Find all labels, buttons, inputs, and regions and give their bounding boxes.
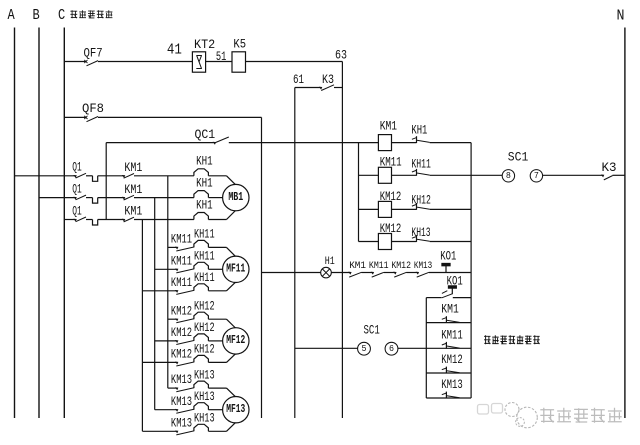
wire KM1 coil to KH1 — [392, 142, 417, 144]
overload KH12 heater 3 — [194, 355, 209, 362]
svg-text:K5: K5 — [233, 38, 246, 52]
overload contact KH1 — [416, 136, 418, 143]
wire tap vertical phase C — [141, 220, 143, 432]
wire Q1 blade to release 3 — [86, 219, 93, 221]
contactor coil KM12 box — [378, 201, 391, 217]
wire lamp to KM1 aux — [331, 272, 350, 274]
timer KT2 hourglass symbol — [196, 56, 202, 69]
svg-text:KM1: KM1 — [124, 183, 142, 197]
wire phase A bus — [14, 28, 16, 419]
svg-text:KM11: KM11 — [171, 276, 192, 290]
wire 61line to terminal5 — [295, 347, 358, 349]
wire KH11 to rail — [430, 174, 503, 176]
wire terminal6 to ladder — [398, 347, 426, 349]
wire KM12 coil to KH13 — [392, 241, 417, 243]
wire QF8 to vertical — [98, 116, 262, 118]
svg-text:KM13: KM13 — [171, 395, 192, 409]
wire tap to KM12 pole 1 — [168, 318, 177, 320]
svg-text:7: 7 — [534, 170, 539, 181]
wire KH12 row2 to motor — [208, 340, 222, 342]
wire neutral N bus — [624, 28, 626, 419]
contactor KM13 blade 3 — [176, 431, 194, 435]
wire KH11 row2 to motor — [208, 268, 222, 270]
svg-text:MF12: MF12 — [226, 334, 245, 347]
wire terminal7 to K3 — [543, 174, 603, 176]
wire tap vertical phase A — [167, 176, 169, 388]
wire tap to KM13 pole 2 — [155, 409, 177, 411]
contactor KM12 blade 1 — [176, 319, 194, 323]
wire KH11 row3 to motor — [208, 290, 226, 292]
wire KH12 row3 to motor — [208, 361, 226, 363]
aux contact KM13 on rung — [445, 392, 447, 399]
wire ladder rung KM1 — [426, 322, 471, 324]
contactor coil KM11 box — [378, 167, 391, 183]
wire tap to KM12 pole 2 — [155, 340, 177, 342]
breaker QF7 contact cross — [84, 60, 87, 63]
svg-text:KM13: KM13 — [171, 373, 192, 387]
watermark text 继保小知识 — [540, 408, 621, 423]
wire KH1 row2 to motor — [208, 197, 222, 199]
breaker Q1 blade 1 — [76, 173, 86, 178]
overload KH1 heater 1 — [194, 169, 209, 176]
watermark faint marks — [478, 405, 489, 415]
relay K01 contact blade — [442, 294, 452, 298]
svg-text:KM13: KM13 — [441, 378, 463, 392]
breaker Q1 thermal release notch 2 — [93, 198, 98, 204]
overload contact KH11 — [416, 169, 418, 176]
wire aux KM13 to K01 stem — [429, 272, 446, 274]
wire diag to MF11 bottom — [227, 282, 236, 291]
aux contact KM12 on rung — [445, 367, 447, 374]
svg-text:KM1: KM1 — [349, 260, 366, 272]
wire diag to MF11 top — [227, 247, 236, 256]
wire diag to MF12 bottom — [227, 354, 236, 363]
contact K3 blade — [321, 85, 334, 91]
aux contact KM1 blade — [349, 272, 361, 277]
wire phase to Q1 pole 3 — [64, 219, 75, 221]
svg-text:KM12: KM12 — [391, 260, 411, 272]
svg-text:KM12: KM12 — [171, 326, 192, 340]
svg-text:KH11: KH11 — [194, 250, 215, 264]
svg-text:KH11: KH11 — [194, 228, 215, 242]
wire K01 stem to rail — [446, 272, 471, 274]
svg-text:KM1: KM1 — [380, 120, 397, 134]
wire KH13 row3 to motor — [208, 430, 226, 432]
relay K01 coil bar — [442, 263, 450, 266]
wire KM12 coil to KH12 — [392, 208, 417, 210]
switch QC1 blade — [214, 137, 228, 143]
svg-text:KH13: KH13 — [194, 368, 215, 382]
wire rail to KM11 coil — [359, 174, 379, 176]
wire tap to KM11 pole 2 — [155, 268, 177, 270]
overload KH12 heater 1 — [194, 312, 209, 319]
contactor KM1 blade 2 — [124, 195, 134, 200]
wire rail to KM12 coil — [359, 241, 379, 243]
contactor KM12 blade 3 — [176, 362, 194, 366]
svg-text:KM13: KM13 — [171, 416, 192, 430]
aux contact KM11 on rung — [445, 342, 447, 349]
wire ladder rung KM11 — [426, 347, 471, 349]
wire C to QF8 — [64, 116, 85, 118]
wire QC1 tap vertical — [105, 143, 107, 220]
relay K01 coil stem — [445, 266, 447, 273]
svg-text:MB1: MB1 — [228, 191, 243, 204]
wire QF8 drop vertical — [261, 117, 263, 418]
motor MF11 circle — [223, 256, 249, 282]
wire K5 to node 63 — [246, 61, 343, 63]
wire Q1 blade to release 1 — [86, 175, 93, 177]
wire between aux KM1-KM11 — [362, 272, 373, 274]
contactor KM1 blade 3 — [124, 217, 134, 222]
svg-text:41: 41 — [167, 41, 182, 58]
overload KH1 heater 2 — [194, 191, 209, 198]
wire rung1 left — [426, 297, 441, 299]
wire KT2 to K5 — [206, 61, 232, 63]
overload KH13 heater 2 — [194, 403, 209, 410]
wire tap to KM13 pole 3 — [142, 430, 176, 432]
overload KH12 heater 2 — [194, 334, 209, 341]
contactor coil KM12 box — [378, 234, 391, 250]
svg-text:Q1: Q1 — [72, 183, 82, 197]
svg-text:KH12: KH12 — [194, 321, 215, 335]
svg-text:KM1: KM1 — [441, 303, 459, 317]
aux contact KM1 on rung — [445, 316, 447, 323]
svg-text:KO1: KO1 — [440, 250, 456, 264]
svg-text:KH12: KH12 — [194, 300, 215, 314]
svg-text:SC1: SC1 — [508, 151, 529, 165]
breaker QF8 blade — [87, 117, 99, 122]
svg-text:Q1: Q1 — [72, 204, 82, 218]
svg-text:KM11: KM11 — [369, 260, 389, 272]
contactor KM1 blade 1 — [124, 174, 134, 179]
contactor KM13 blade 1 — [176, 388, 194, 392]
svg-text:61: 61 — [293, 73, 304, 87]
wire diag to MB1 bottom — [227, 211, 236, 220]
wire rung1 right — [453, 297, 471, 299]
motor MF12 circle — [223, 328, 249, 354]
wire ladder rung KM12 — [426, 372, 471, 374]
wire tap to KM11 pole 3 — [142, 290, 176, 292]
wire ladder rung KM13 — [426, 397, 471, 399]
aux contact KM12 blade — [394, 272, 406, 277]
svg-text:SC1: SC1 — [364, 324, 380, 338]
svg-text:KT2: KT2 — [194, 38, 215, 52]
wire 61 to K3 — [295, 87, 321, 89]
contactor KM13 blade 2 — [176, 409, 194, 413]
wire diag to MF12 top — [227, 319, 236, 328]
svg-text:Q1: Q1 — [72, 161, 82, 175]
svg-text:KH1: KH1 — [196, 176, 213, 190]
contactor KM11 blade 3 — [176, 290, 194, 294]
svg-text:MF13: MF13 — [226, 403, 245, 416]
overload KH11 heater 2 — [194, 262, 209, 269]
svg-text:KM1: KM1 — [124, 205, 142, 219]
svg-text:KH13: KH13 — [194, 390, 215, 404]
overload KH13 heater 3 — [194, 424, 209, 431]
svg-text:QF7: QF7 — [84, 47, 103, 61]
wire diag to MF13 bottom — [227, 423, 236, 432]
wire KM1 to KH1 pole 1 — [134, 175, 194, 177]
svg-text:KH1: KH1 — [196, 198, 213, 212]
wire KH11 row1 to motor — [208, 246, 226, 248]
wire tap to KM13 pole 1 — [168, 387, 177, 389]
wire KH13 row2 to motor — [208, 409, 222, 411]
svg-text:K3: K3 — [602, 161, 617, 175]
svg-text:KM12: KM12 — [441, 353, 463, 367]
wire QC1 left segment — [106, 142, 214, 144]
overload contact KH12 — [416, 203, 418, 210]
wire right rail — [470, 143, 472, 398]
svg-text:K3: K3 — [322, 73, 334, 87]
wire phase to Q1 pole 1 — [15, 175, 75, 177]
svg-text:KM12: KM12 — [171, 304, 192, 318]
wire node-61 vertical — [294, 88, 296, 419]
svg-text:MF11: MF11 — [226, 263, 245, 276]
wire Q1 to KM1 pole 1 — [98, 175, 124, 177]
svg-text:KH12: KH12 — [194, 343, 215, 357]
wire ladder left rail — [425, 298, 427, 398]
wire diag to MF13 top — [227, 388, 236, 397]
wire KM1 to KH1 pole 3 — [134, 219, 194, 221]
wire phase to Q1 pole 2 — [39, 197, 75, 199]
wire between aux KM11-KM12 — [384, 272, 395, 274]
wire node-63 vertical — [341, 62, 343, 419]
svg-text:C: C — [58, 7, 65, 24]
breaker Q1 blade 3 — [76, 217, 86, 222]
watermark logo circles — [517, 407, 538, 428]
contactor coil KM1 box — [378, 135, 391, 151]
wire KH12 to rail — [430, 208, 471, 210]
wire KH1 row1 to motor — [208, 175, 226, 177]
wire tap to KM12 pole 3 — [142, 361, 176, 363]
wire KM1 to KH1 pole 2 — [134, 197, 194, 199]
wire phase C bus — [63, 28, 65, 419]
terminal 7 circle — [530, 170, 542, 182]
wire KM11 coil to KH11 — [392, 174, 417, 176]
motor MB1 circle — [223, 184, 249, 210]
svg-text:KH11: KH11 — [411, 158, 431, 172]
svg-text:KH1: KH1 — [411, 124, 427, 138]
svg-text:N: N — [617, 8, 625, 25]
relay coil K5 box — [232, 52, 246, 72]
wire KH1 row3 to motor — [208, 219, 226, 221]
terminal 6 circle — [385, 342, 398, 355]
relay K01 contact stub — [442, 291, 447, 294]
svg-text:KM13: KM13 — [414, 260, 432, 272]
svg-text:KM11: KM11 — [171, 254, 192, 268]
wire coil ladder left rail — [358, 143, 360, 242]
aux contact KM11 blade — [372, 272, 384, 277]
wire diag to MB1 top — [227, 176, 236, 185]
svg-text:KH11: KH11 — [194, 271, 215, 285]
wire KH12 row1 to motor — [208, 318, 226, 320]
wire Q1 to KM1 pole 2 — [98, 197, 124, 199]
svg-text:6: 6 — [389, 343, 394, 354]
svg-text:KM1: KM1 — [124, 161, 142, 175]
svg-text:KH1: KH1 — [196, 155, 213, 169]
motor MF13 circle — [223, 397, 249, 423]
terminal 5 circle — [358, 342, 371, 355]
wire QF8drop to lamp H1 — [262, 272, 321, 274]
breaker QF8 contact cross — [84, 116, 87, 119]
breaker Q1 thermal release notch 3 — [93, 220, 98, 226]
lamp H1 circle — [321, 267, 332, 278]
overload contact KH13 — [416, 235, 418, 242]
wire C to QF7 — [64, 61, 85, 63]
svg-text:KH13: KH13 — [194, 412, 215, 426]
breaker Q1 thermal release notch 1 — [93, 176, 98, 182]
svg-text:KM11: KM11 — [441, 328, 463, 342]
svg-text:KM12: KM12 — [171, 348, 192, 362]
svg-text:B: B — [33, 7, 40, 24]
svg-text:8: 8 — [506, 170, 511, 181]
relay K01 contact bar — [448, 286, 456, 289]
breaker QF7 blade — [87, 61, 99, 66]
wire KH1 to rail — [430, 142, 471, 144]
contact K3 blade right — [604, 176, 613, 180]
wire tap vertical phase B — [154, 198, 156, 410]
text 切换后电源 (power after changeover) — [70, 10, 112, 18]
text 第一组冷控回路 (first cooling-control group) — [484, 335, 540, 344]
wire Q1 to KM1 pole 3 — [98, 219, 124, 221]
aux contact KM13 blade — [417, 272, 429, 277]
wire between aux KM12-KM13 — [407, 272, 418, 274]
wire phase B bus — [38, 28, 40, 419]
svg-text:KM11: KM11 — [171, 233, 192, 247]
wire KH13 to rail — [430, 241, 471, 243]
wire Q1 blade to release 2 — [86, 197, 93, 199]
contactor KM11 blade 2 — [176, 269, 194, 273]
overload KH1 heater 3 — [194, 213, 209, 220]
svg-text:QF8: QF8 — [82, 102, 104, 116]
svg-text:QC1: QC1 — [195, 128, 216, 142]
wire QC1 to KM1 coil — [229, 142, 379, 144]
lamp H1 cross — [322, 269, 329, 276]
svg-text:5: 5 — [362, 343, 367, 354]
wire tap to KM11 pole 1 — [168, 246, 177, 248]
terminal 8 circle — [502, 170, 514, 182]
contactor KM11 blade 1 — [176, 247, 194, 251]
wire QF7 to KT2 — [98, 61, 192, 63]
wire K3 to 63 line — [334, 87, 342, 89]
wire rail to KM12 coil — [359, 208, 379, 210]
timer contact KT2 box — [192, 52, 205, 72]
svg-text:63: 63 — [335, 49, 347, 63]
wire KH13 row1 to motor — [208, 387, 226, 389]
contactor KM12 blade 2 — [176, 341, 194, 345]
overload KH11 heater 1 — [194, 240, 209, 247]
overload KH11 heater 3 — [194, 284, 209, 291]
wire K3 to N — [613, 174, 625, 176]
breaker Q1 blade 2 — [76, 195, 86, 200]
svg-text:A: A — [8, 7, 15, 24]
svg-text:H1: H1 — [325, 256, 335, 268]
overload KH13 heater 1 — [194, 381, 209, 388]
relay K01 contact stem — [451, 288, 453, 294]
